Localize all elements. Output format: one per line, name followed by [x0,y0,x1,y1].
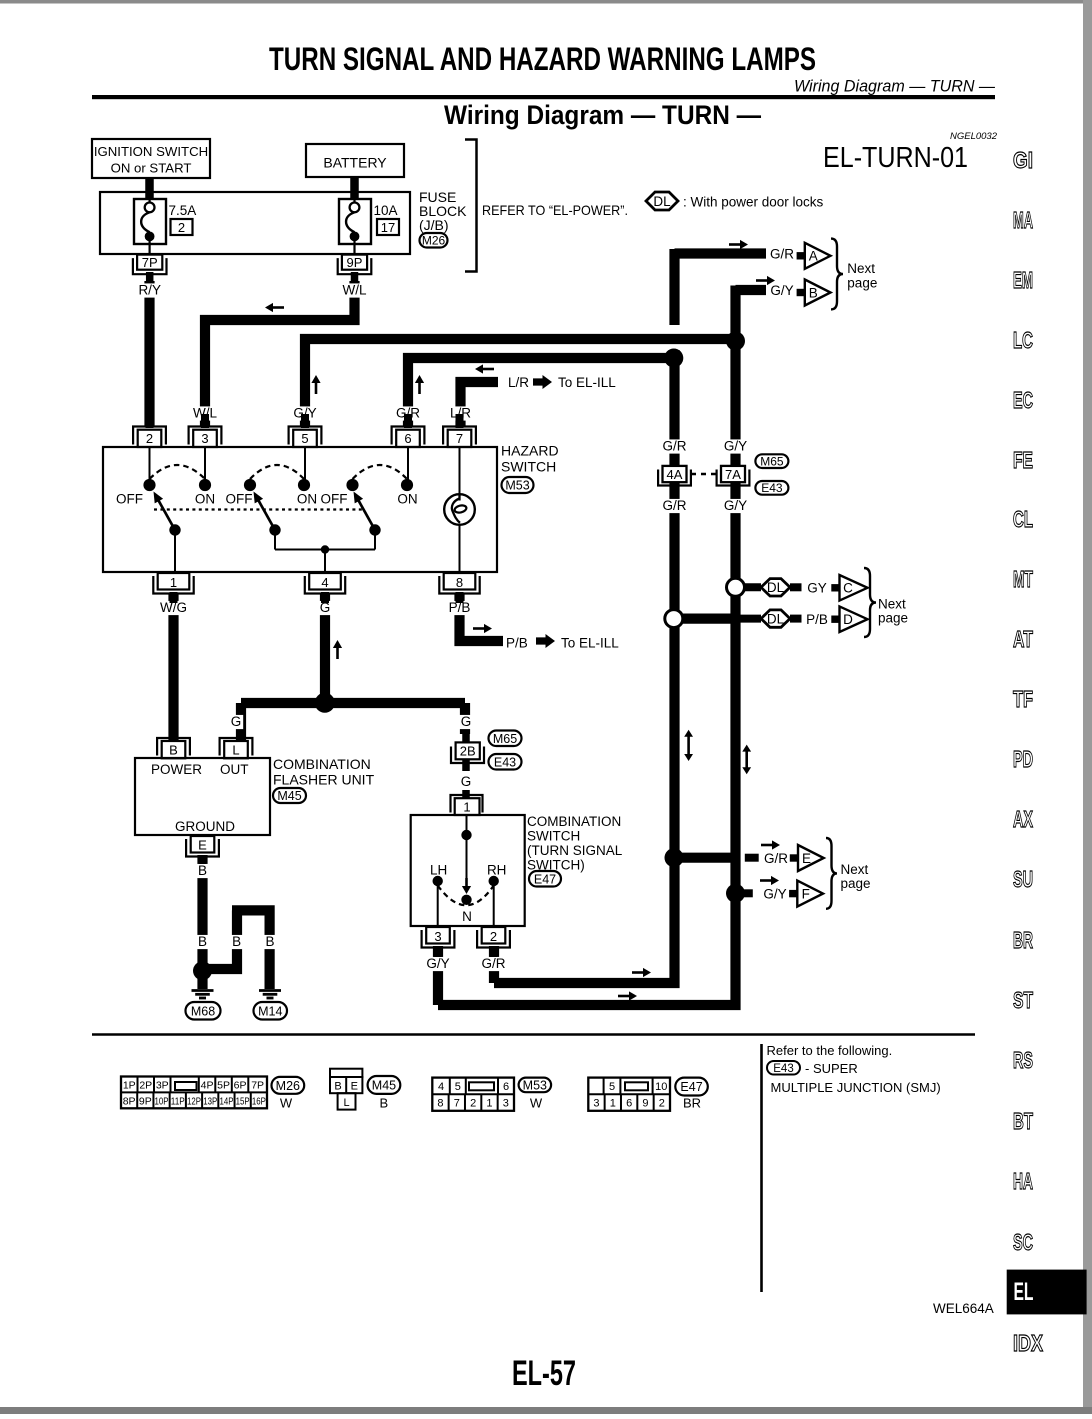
svg-text:2: 2 [659,1098,665,1110]
svg-text:12P: 12P [187,1096,201,1108]
svg-text:F: F [802,886,810,901]
svg-text:E: E [802,851,811,866]
svg-text:G/Y: G/Y [770,283,793,298]
svg-text:MT: MT [1013,566,1033,592]
svg-text:CL: CL [1013,506,1033,532]
svg-text:6: 6 [503,1081,509,1093]
svg-text:REFER TO “EL-POWER”.: REFER TO “EL-POWER”. [482,202,628,218]
svg-text:SWITCH: SWITCH [527,829,580,844]
svg-text:EL-TURN-01: EL-TURN-01 [823,142,968,174]
svg-text:ON: ON [195,492,215,507]
svg-text:PD: PD [1013,746,1033,772]
svg-text:TF: TF [1013,686,1033,712]
svg-text:2B: 2B [460,744,476,759]
svg-text:10P: 10P [155,1096,169,1108]
svg-text:B: B [169,743,178,758]
svg-text:Refer to the following.: Refer to the following. [767,1043,893,1058]
svg-text:POWER: POWER [151,762,202,777]
svg-text:HAZARD: HAZARD [501,443,559,459]
svg-text:ON: ON [297,492,317,507]
svg-text:9: 9 [642,1098,648,1110]
svg-text:G/Y: G/Y [763,887,786,902]
svg-text:7: 7 [454,1098,460,1110]
svg-text:2: 2 [470,1098,476,1110]
svg-text:N: N [462,909,472,924]
svg-text:G/R: G/R [662,498,686,513]
svg-text:G: G [231,714,242,729]
svg-text:13P: 13P [203,1096,217,1108]
svg-text:8: 8 [456,575,463,590]
svg-text:7.5A: 7.5A [169,203,197,218]
svg-text:8P: 8P [123,1096,136,1108]
svg-text:7: 7 [456,431,463,446]
svg-text:To EL-ILL: To EL-ILL [561,636,619,651]
svg-text:page: page [878,611,908,626]
svg-text:Wiring Diagram — TURN —: Wiring Diagram — TURN — [794,78,995,96]
svg-text:EL: EL [1014,1278,1034,1306]
svg-text:M65: M65 [493,732,517,746]
svg-text:9P: 9P [139,1096,152,1108]
svg-text:1: 1 [610,1098,616,1110]
svg-text:G/R: G/R [662,439,686,454]
svg-text:M14: M14 [258,1004,282,1018]
svg-text:FE: FE [1013,447,1033,473]
svg-text:SU: SU [1013,866,1033,892]
svg-text:7P: 7P [142,255,158,270]
svg-text:A: A [809,249,818,264]
svg-text:G/R: G/R [770,246,794,261]
svg-text:DL: DL [653,194,671,209]
svg-text:G: G [461,774,472,789]
svg-text:5: 5 [455,1081,461,1093]
svg-text:2: 2 [146,431,153,446]
svg-text:B: B [198,934,207,949]
svg-text:2: 2 [490,929,497,944]
svg-text:L/R: L/R [508,375,529,390]
svg-text:3: 3 [503,1098,509,1110]
svg-text:page: page [841,876,871,891]
svg-text:2P: 2P [139,1080,152,1092]
svg-text:COMBINATION: COMBINATION [527,814,621,829]
svg-text:17: 17 [381,220,395,235]
svg-text:E43: E43 [773,1063,793,1075]
svg-text:DL: DL [767,580,785,595]
svg-text:B: B [265,934,274,949]
svg-text:L: L [343,1097,349,1109]
svg-text:OFF: OFF [321,492,348,507]
svg-text:G: G [461,714,472,729]
svg-text:1: 1 [486,1098,492,1110]
svg-text:B: B [334,1081,341,1093]
svg-text:OFF: OFF [116,492,143,507]
svg-text:7P: 7P [251,1080,264,1092]
svg-text:B: B [232,934,241,949]
svg-text:10A: 10A [374,203,398,218]
svg-text:W: W [530,1096,543,1111]
svg-text:GROUND: GROUND [175,819,235,834]
svg-text:P/B: P/B [506,636,528,651]
svg-text:AT: AT [1013,626,1033,652]
svg-text:Wiring Diagram — TURN —: Wiring Diagram — TURN — [444,100,761,130]
svg-text:FLASHER UNIT: FLASHER UNIT [273,772,375,788]
svg-text:G/R: G/R [764,851,788,866]
svg-text:D: D [843,612,853,627]
svg-text:16P: 16P [252,1096,266,1108]
svg-text:4A: 4A [667,467,683,482]
svg-text:HA: HA [1013,1168,1033,1194]
svg-text:6: 6 [404,431,411,446]
svg-text:page: page [847,275,877,290]
svg-text:B: B [379,1096,388,1111]
svg-text:IDX: IDX [1013,1330,1044,1356]
svg-text:3: 3 [593,1098,599,1110]
svg-text:E: E [198,838,207,853]
svg-text:(J/B): (J/B) [419,217,449,233]
svg-text:MA: MA [1013,207,1033,233]
svg-text:Next: Next [841,862,869,877]
svg-text:BATTERY: BATTERY [323,155,387,171]
svg-text:10: 10 [655,1081,667,1093]
svg-text:5: 5 [609,1081,615,1093]
svg-text:To EL-ILL: To EL-ILL [558,375,616,390]
svg-text:G/R: G/R [481,956,505,971]
svg-text:1: 1 [463,800,470,815]
svg-text:E: E [351,1081,358,1093]
svg-text:SC: SC [1013,1229,1033,1255]
svg-text:: With power door locks: : With power door locks [683,195,824,210]
svg-text:M68: M68 [191,1004,215,1018]
svg-text:B: B [198,863,207,878]
svg-text:E43: E43 [761,481,783,495]
svg-text:MULTIPLE JUNCTION (SMJ): MULTIPLE JUNCTION (SMJ) [771,1080,941,1095]
svg-text:COMBINATION: COMBINATION [273,756,371,772]
svg-text:4: 4 [438,1081,444,1093]
svg-text:SWITCH: SWITCH [501,459,556,475]
svg-text:1P: 1P [123,1080,136,1092]
svg-text:BT: BT [1013,1108,1033,1134]
svg-text:15P: 15P [236,1096,250,1108]
svg-text:14P: 14P [219,1096,233,1108]
svg-text:R/Y: R/Y [138,283,161,298]
svg-text:B: B [809,285,818,300]
svg-text:Next: Next [878,597,906,612]
svg-text:EC: EC [1013,387,1033,413]
svg-text:C: C [843,581,853,596]
svg-text:G/Y: G/Y [724,439,747,454]
svg-text:OFF: OFF [226,492,253,507]
svg-text:GI: GI [1013,147,1033,173]
svg-text:L: L [232,743,239,758]
svg-text:E43: E43 [494,755,516,769]
svg-text:G/Y: G/Y [426,956,449,971]
svg-text:ON: ON [397,492,417,507]
svg-text:G/Y: G/Y [724,498,747,513]
svg-text:6P: 6P [234,1080,247,1092]
svg-text:9P: 9P [347,255,363,270]
svg-text:E47: E47 [680,1080,702,1094]
svg-text:OUT: OUT [220,762,249,777]
svg-text:NGEL0032: NGEL0032 [950,131,998,142]
svg-text:11P: 11P [171,1096,185,1108]
svg-text:DL: DL [767,611,785,626]
svg-text:3P: 3P [156,1080,169,1092]
svg-text:BR: BR [1013,927,1033,953]
svg-text:M65: M65 [760,454,784,468]
svg-text:IGNITION SWITCH: IGNITION SWITCH [94,144,208,159]
svg-text:RS: RS [1013,1047,1033,1073]
svg-text:5: 5 [301,431,308,446]
svg-text:4P: 4P [201,1080,214,1092]
svg-text:ST: ST [1013,987,1033,1013]
svg-text:M53: M53 [505,479,529,493]
svg-text:2: 2 [178,220,185,235]
svg-text:M45: M45 [372,1078,396,1092]
svg-text:W/L: W/L [342,283,366,298]
svg-text:Next: Next [847,261,875,276]
svg-text:M26: M26 [422,234,446,248]
svg-text:LH: LH [430,863,447,878]
svg-text:1: 1 [170,575,177,590]
svg-text:5P: 5P [217,1080,230,1092]
svg-text:4: 4 [321,575,328,590]
svg-text:BR: BR [683,1096,701,1111]
svg-text:GY: GY [807,581,827,596]
svg-text:- SUPER: - SUPER [805,1061,858,1076]
svg-text:ON or START: ON or START [111,161,192,176]
svg-text:6: 6 [626,1098,632,1110]
svg-text:M53: M53 [523,1078,547,1092]
svg-text:RH: RH [487,863,507,878]
svg-text:AX: AX [1013,806,1033,832]
svg-text:M45: M45 [277,789,301,803]
svg-text:8: 8 [437,1098,443,1110]
svg-text:M26: M26 [276,1079,300,1093]
svg-text:P/B: P/B [806,612,828,627]
svg-text:3: 3 [434,929,441,944]
svg-text:(TURN SIGNAL: (TURN SIGNAL [527,843,623,858]
svg-text:7A: 7A [725,467,741,482]
svg-text:LC: LC [1013,327,1033,353]
svg-text:E47: E47 [534,872,556,886]
svg-text:TURN SIGNAL AND HAZARD WARNING: TURN SIGNAL AND HAZARD WARNING LAMPS [269,41,816,77]
svg-text:W: W [280,1096,293,1111]
svg-text:3: 3 [201,431,208,446]
svg-text:WEL664A: WEL664A [933,1301,994,1316]
svg-text:EL-57: EL-57 [512,1354,576,1393]
svg-text:EM: EM [1013,267,1033,293]
